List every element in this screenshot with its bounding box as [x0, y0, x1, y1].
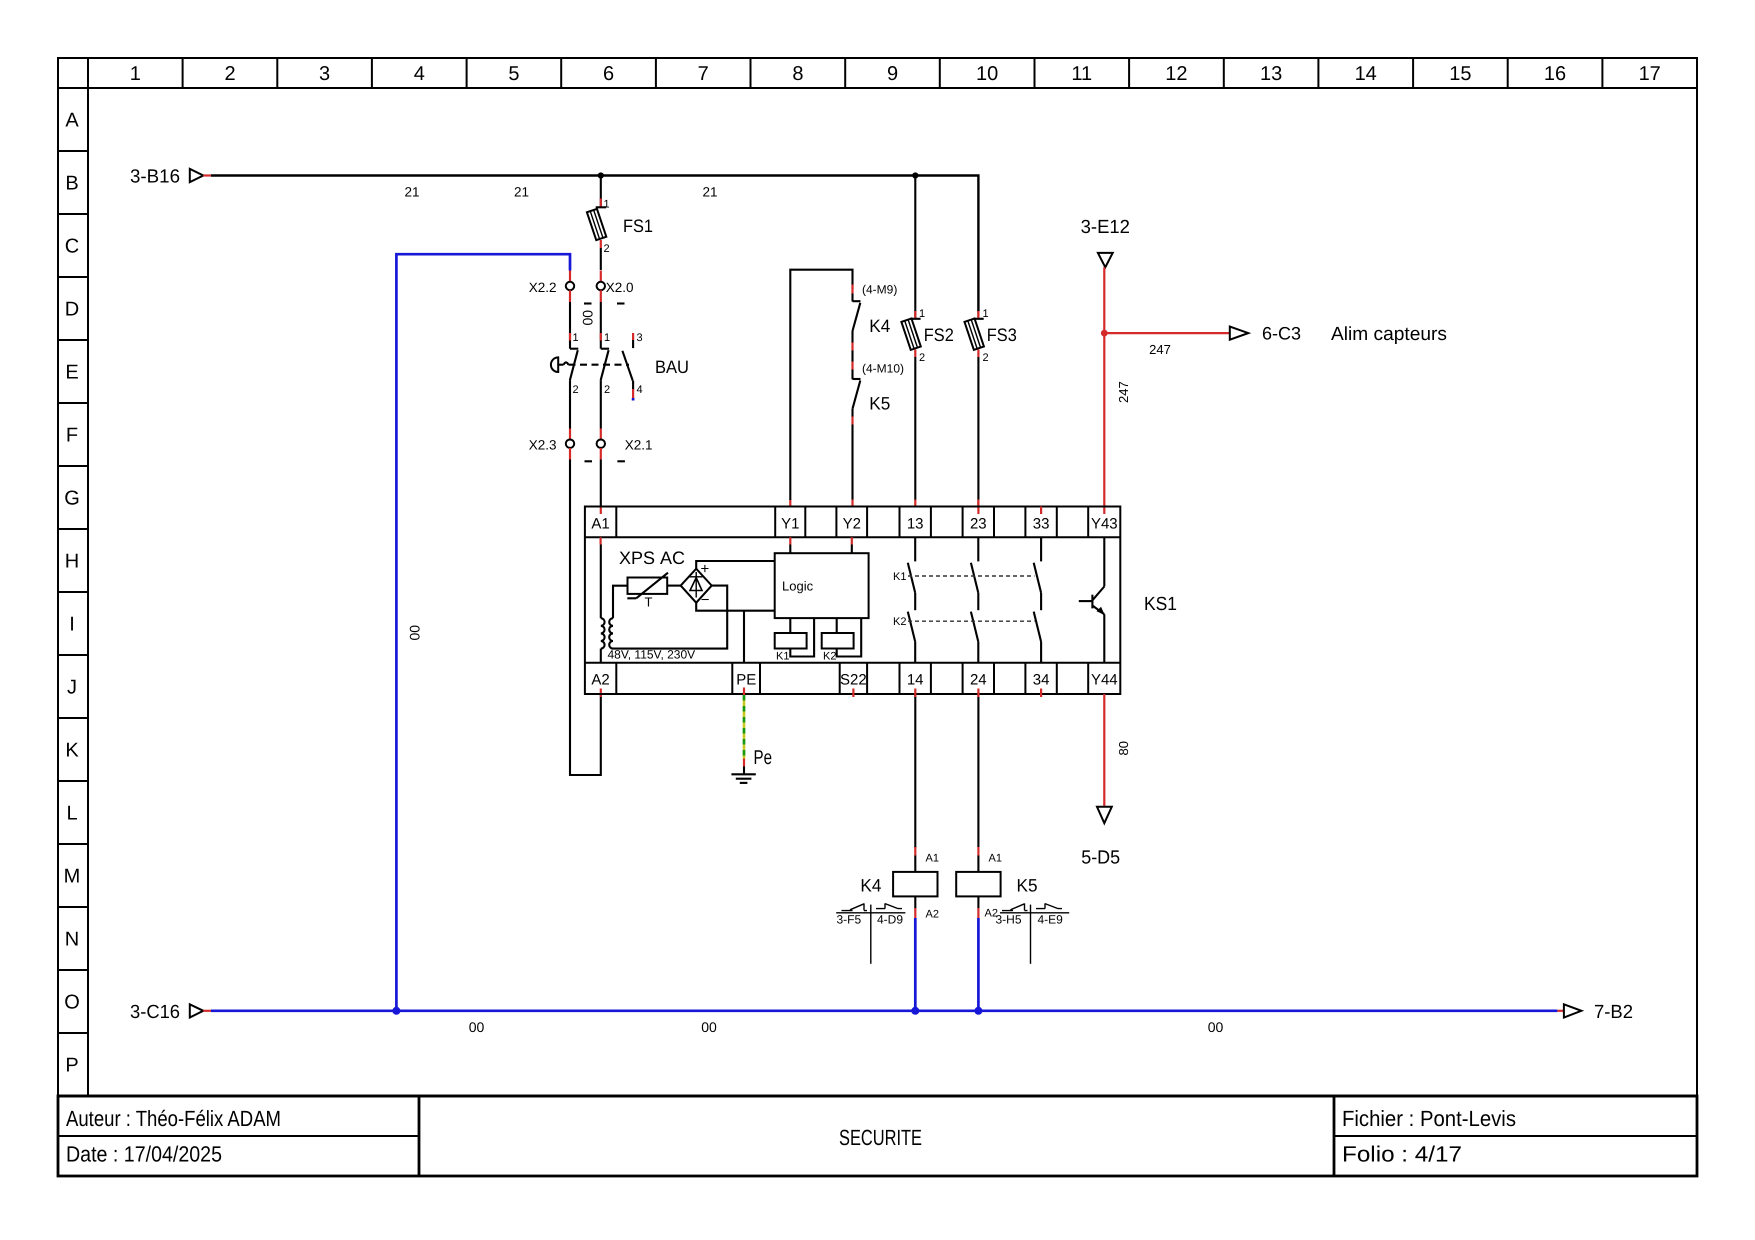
- dest arrow 7-B2: [1557, 1002, 1633, 1023]
- svg-text:F: F: [66, 425, 78, 447]
- coil K4: [860, 847, 939, 921]
- svg-text:P: P: [65, 1055, 78, 1077]
- svg-text:KS1: KS1: [1144, 594, 1177, 615]
- svg-text:6: 6: [603, 63, 614, 85]
- svg-text:15: 15: [1449, 63, 1471, 85]
- svg-text:12: 12: [1165, 63, 1187, 85]
- XPS terminal labels top row: [591, 516, 1117, 533]
- svg-text:O: O: [64, 992, 80, 1014]
- svg-text:3-B16: 3-B16: [130, 167, 180, 188]
- svg-text:Y43: Y43: [1091, 516, 1118, 533]
- svg-text:1: 1: [130, 63, 141, 85]
- wire rectifier + to Logic: [696, 561, 775, 569]
- logic unit box: [775, 553, 869, 618]
- svg-text:5: 5: [508, 63, 519, 85]
- net label 00 (bottom, x3): [469, 1019, 1224, 1035]
- svg-text:3-F5: 3-F5: [837, 913, 862, 927]
- svg-text:A1: A1: [591, 516, 609, 533]
- svg-text:X2.2: X2.2: [529, 280, 557, 295]
- coil K5: [956, 847, 1037, 920]
- svg-text:K2: K2: [823, 651, 836, 663]
- BAU right NO contact pins 3-4: [622, 332, 642, 401]
- svg-text:A1: A1: [989, 853, 1002, 865]
- XPS contact chain 33-34: [1034, 537, 1041, 663]
- svg-text:−: −: [701, 592, 710, 609]
- svg-text:X2.0: X2.0: [606, 280, 634, 295]
- svg-text:2: 2: [224, 63, 235, 85]
- svg-text:21: 21: [514, 185, 529, 200]
- svg-text:8: 8: [792, 63, 803, 85]
- wire net 80 (red) to 5-D5: [1103, 694, 1105, 807]
- source arrow 3-C16: [130, 1002, 211, 1023]
- svg-text:A1: A1: [926, 853, 939, 865]
- node junction blue riser/net00: [392, 1007, 400, 1015]
- wire Y1 into Logic: [789, 545, 791, 554]
- node junction K4/net00: [911, 1007, 919, 1015]
- source arrow 3-B16: [130, 167, 211, 188]
- svg-text:4-E9: 4-E9: [1038, 913, 1064, 927]
- wire net 00 (blue riser + top link): [396, 254, 570, 1011]
- svg-text:24: 24: [970, 672, 987, 689]
- net label 21 (x3): [404, 185, 717, 200]
- svg-text:L: L: [66, 803, 77, 825]
- svg-text:X2.3: X2.3: [529, 438, 557, 453]
- svg-text:247: 247: [1116, 381, 1131, 403]
- svg-text:14: 14: [1355, 63, 1377, 85]
- svg-text:00: 00: [469, 1019, 485, 1035]
- relay contact K4 (NO): [853, 283, 898, 351]
- fuse FS3: [964, 308, 1016, 514]
- svg-text:33: 33: [1033, 516, 1050, 533]
- svg-text:21: 21: [404, 185, 419, 200]
- svg-text:C: C: [65, 236, 79, 258]
- svg-text:K1: K1: [893, 571, 906, 583]
- svg-text:A: A: [65, 110, 79, 132]
- svg-text:00: 00: [407, 625, 423, 641]
- svg-text:5-D5: 5-D5: [1081, 847, 1120, 868]
- wire net 21 (top bus): [211, 176, 978, 312]
- svg-text:48V, 115V, 230V: 48V, 115V, 230V: [608, 648, 696, 662]
- K2 linkage dashed: [893, 616, 1034, 628]
- wire PE drop (internal): [743, 611, 745, 663]
- wire varistor lead: [667, 585, 681, 587]
- svg-text:7-B2: 7-B2: [1594, 1002, 1633, 1023]
- svg-text:16: 16: [1544, 63, 1566, 85]
- wire rectifier - rail to Logic / PE: [696, 603, 775, 611]
- svg-text:H: H: [65, 551, 79, 573]
- svg-text:D: D: [65, 299, 79, 321]
- svg-text:34: 34: [1033, 672, 1050, 689]
- svg-text:Logic: Logic: [782, 579, 814, 594]
- wire Y2 into Logic: [851, 545, 853, 554]
- svg-text:Y44: Y44: [1091, 672, 1118, 689]
- svg-text:+: +: [701, 561, 710, 578]
- wire 14 to coil K4: [914, 694, 916, 848]
- relay coil K2 (XPS internal): [822, 618, 862, 662]
- net label 247 (vertical): [1116, 381, 1131, 403]
- terminal X2.1: [597, 429, 653, 462]
- svg-text:K5: K5: [869, 394, 890, 414]
- svg-text:247: 247: [1149, 342, 1171, 357]
- svg-text:13: 13: [1260, 63, 1282, 85]
- svg-text:(4-M10): (4-M10): [862, 362, 904, 376]
- relay coil K1 (XPS internal): [775, 618, 814, 662]
- source arrow 3-E12: [1081, 217, 1130, 267]
- svg-text:1: 1: [573, 332, 579, 344]
- wire X2.0 to BAU pin1: [600, 302, 602, 349]
- net label 80 (vertical): [1116, 741, 1131, 755]
- svg-text:3: 3: [637, 332, 643, 344]
- relay contact K5 (NO): [853, 351, 905, 425]
- svg-text:K4: K4: [869, 316, 890, 336]
- svg-text:7: 7: [698, 63, 709, 85]
- wire X2.3 to XPS A2 (return): [570, 460, 601, 776]
- wire net 00 from K4 A2 (blue): [914, 918, 917, 1011]
- terminal X2.2: [529, 271, 592, 304]
- svg-text:K5: K5: [1017, 876, 1038, 896]
- svg-text:B: B: [65, 173, 78, 195]
- svg-text:13: 13: [907, 516, 924, 533]
- svg-text:Auteur : Théo-Félix ADAM: Auteur : Théo-Félix ADAM: [66, 1106, 281, 1131]
- svg-text:2: 2: [983, 352, 989, 364]
- svg-text:17: 17: [1639, 63, 1661, 85]
- svg-text:T: T: [645, 595, 653, 610]
- svg-text:FS2: FS2: [924, 325, 954, 345]
- svg-text:4: 4: [637, 384, 643, 396]
- fuse FS1: [587, 176, 653, 271]
- transistor output stage (XPS internal): [1079, 537, 1105, 663]
- svg-text:9: 9: [887, 63, 898, 85]
- svg-text:10: 10: [976, 63, 998, 85]
- svg-text:2: 2: [604, 243, 610, 255]
- XPS terminal connection ticks: [601, 507, 1042, 698]
- svg-text:FS1: FS1: [623, 216, 653, 236]
- bridge rectifier (XPS internal): [681, 561, 712, 609]
- svg-text:K2: K2: [893, 616, 906, 628]
- svg-text:3-H5: 3-H5: [996, 913, 1022, 927]
- svg-text:Folio : 4/17: Folio : 4/17: [1342, 1142, 1462, 1167]
- net label 00 (near X2.0): [580, 310, 596, 326]
- fuse FS2: [901, 176, 953, 507]
- wire net 247 (red vertical): [1103, 267, 1105, 514]
- svg-text:K: K: [65, 740, 79, 762]
- svg-text:G: G: [64, 488, 80, 510]
- ground Pe: [731, 688, 772, 783]
- wire X2.1 to XPS A1: [600, 460, 602, 507]
- svg-text:BAU: BAU: [655, 357, 689, 377]
- svg-text:21: 21: [702, 185, 717, 200]
- coil K4 cross-reference table: [836, 903, 905, 963]
- svg-text:6-C3: 6-C3: [1262, 324, 1301, 344]
- svg-text:N: N: [65, 929, 79, 951]
- svg-text:M: M: [64, 866, 81, 888]
- node junction FS2/net21: [912, 172, 918, 178]
- node red junction 247: [1101, 330, 1108, 337]
- svg-text:00: 00: [701, 1019, 717, 1035]
- svg-text:Fichier : Pont-Levis: Fichier : Pont-Levis: [1342, 1106, 1516, 1131]
- svg-text:Pe: Pe: [754, 747, 773, 769]
- svg-text:4: 4: [414, 63, 425, 85]
- XPS contact chain 23-24: [971, 537, 978, 663]
- svg-text:3-E12: 3-E12: [1081, 217, 1130, 238]
- svg-text:I: I: [69, 614, 75, 636]
- node junction K5/net00: [974, 1007, 982, 1015]
- svg-text:SECURITE: SECURITE: [839, 1125, 922, 1150]
- transformer (XPS internal): [601, 545, 727, 663]
- svg-text:14: 14: [907, 672, 924, 689]
- svg-text:Alim capteurs: Alim capteurs: [1331, 324, 1447, 345]
- svg-text:2: 2: [604, 384, 610, 396]
- thermistor T (XPS internal): [627, 573, 668, 610]
- XPS contact chain 13-14: [908, 537, 915, 663]
- net label 00 (left riser): [407, 625, 423, 641]
- svg-text:2: 2: [573, 384, 579, 396]
- svg-text:(4-M9): (4-M9): [862, 283, 897, 297]
- svg-text:XPS AC: XPS AC: [619, 548, 685, 568]
- svg-text:A2: A2: [591, 672, 609, 689]
- svg-text:X2.1: X2.1: [625, 438, 653, 453]
- svg-text:K1: K1: [776, 651, 789, 663]
- wire net 247 to 6-C3: [1104, 332, 1230, 334]
- svg-text:Y1: Y1: [781, 516, 799, 533]
- svg-text:11: 11: [1071, 63, 1092, 85]
- BAU left NC contact pins 1-2: [570, 332, 579, 429]
- dest arrow 5-D5: [1081, 807, 1120, 869]
- wire X2.2 to BAU pin1: [569, 302, 571, 349]
- terminal X2.3: [529, 429, 592, 462]
- svg-text:FS3: FS3: [987, 325, 1017, 345]
- coil K5 cross-reference table: [996, 903, 1070, 963]
- wire 24 to coil K5: [977, 694, 979, 847]
- safety relay U1 XPS AC (block outline + terminal rows): [585, 507, 1120, 695]
- K1 linkage dashed: [893, 571, 1034, 583]
- svg-text:3-C16: 3-C16: [130, 1002, 180, 1023]
- XPS terminal labels bottom row: [591, 672, 1117, 689]
- dest arrow 6-C3: [1230, 324, 1301, 344]
- BAU middle NC contact pins 1-2: [601, 332, 610, 429]
- svg-text:K4: K4: [860, 876, 881, 896]
- svg-text:PE: PE: [736, 672, 756, 689]
- wire net 00 (bottom bus, blue): [211, 1009, 1557, 1012]
- svg-text:3: 3: [319, 63, 330, 85]
- svg-text:1: 1: [604, 332, 610, 344]
- svg-text:4-D9: 4-D9: [877, 913, 903, 927]
- node junction FS1/net21: [598, 172, 604, 178]
- svg-text:A2: A2: [926, 909, 939, 921]
- svg-text:00: 00: [1208, 1019, 1224, 1035]
- wire net 00 from K5 A2 (blue): [977, 918, 980, 1011]
- svg-text:80: 80: [1116, 741, 1131, 755]
- svg-text:S22: S22: [840, 672, 867, 689]
- svg-text:J: J: [67, 677, 77, 699]
- svg-text:23: 23: [970, 516, 987, 533]
- wire K5 to Y2 terminal: [851, 425, 853, 501]
- svg-text:E: E: [65, 362, 78, 384]
- BAU mushroom head + linkage: [551, 357, 629, 372]
- svg-text:Date : 17/04/2025: Date : 17/04/2025: [66, 1142, 222, 1167]
- svg-text:1: 1: [604, 199, 610, 211]
- svg-text:00: 00: [580, 310, 596, 326]
- svg-text:2: 2: [919, 352, 925, 364]
- wire Y1 bridge to K4/K5 chain: [789, 500, 791, 507]
- terminal X2.0: [597, 271, 634, 304]
- svg-text:Y2: Y2: [843, 516, 861, 533]
